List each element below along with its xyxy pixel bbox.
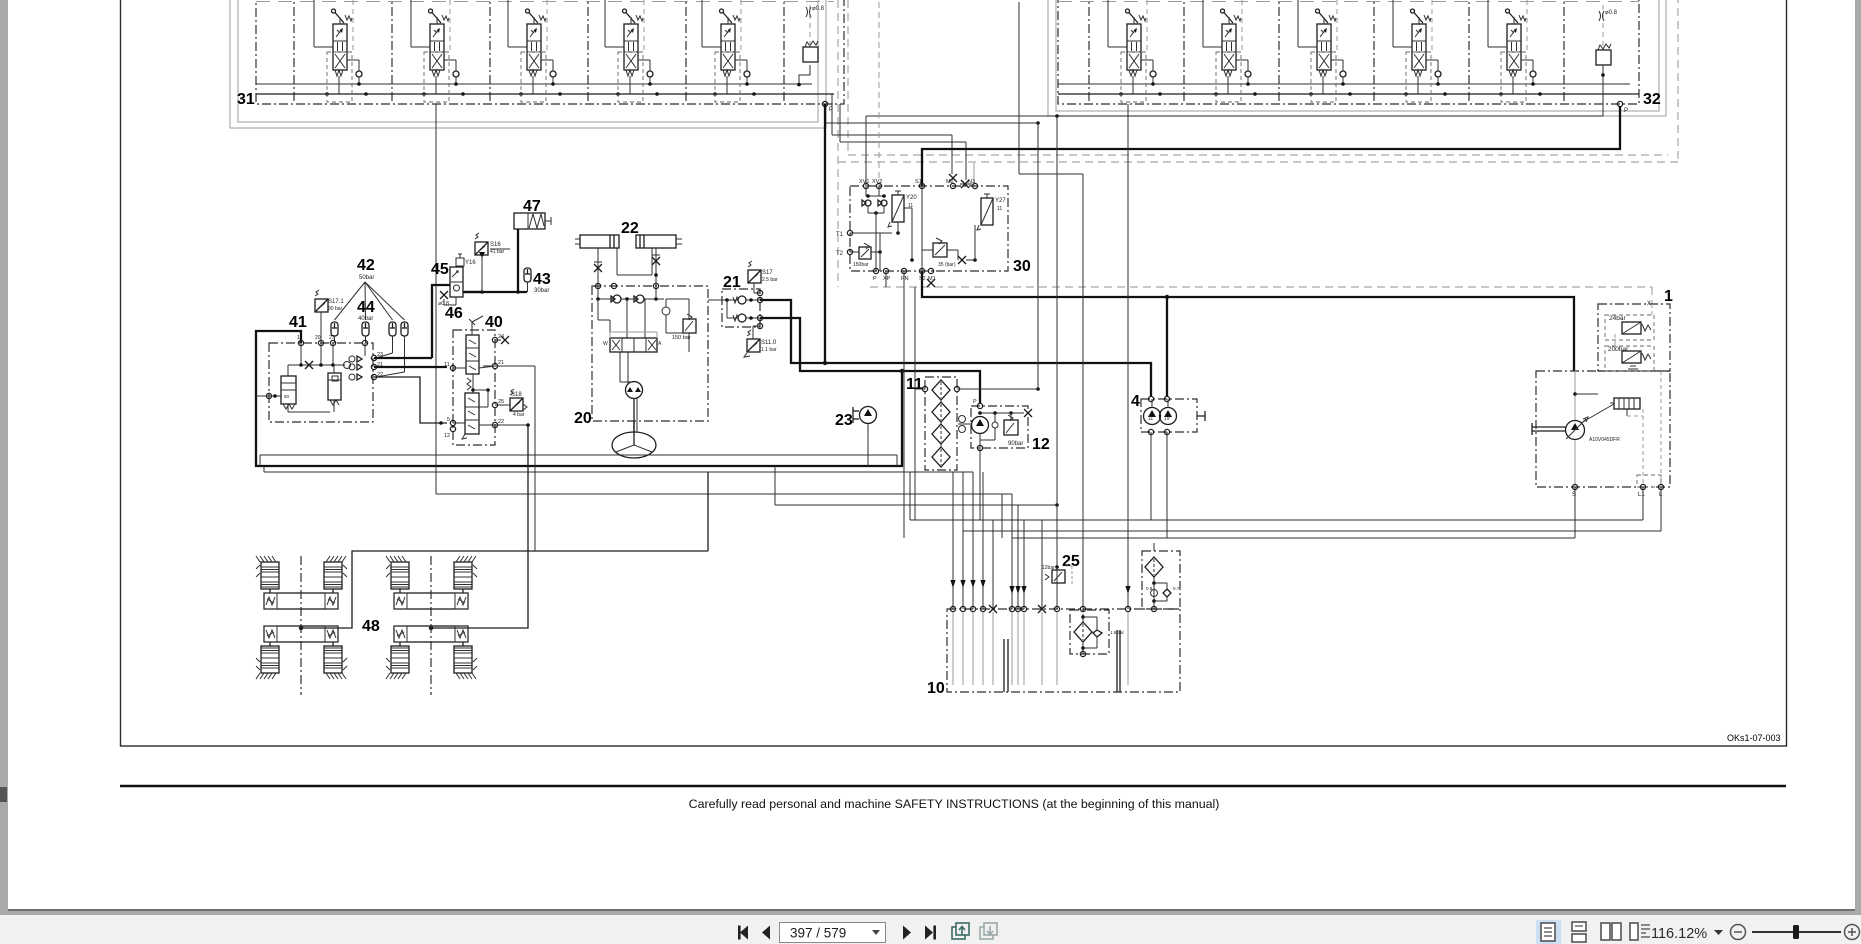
svg-text:116.12%: 116.12% — [1651, 926, 1707, 942]
svg-text:397 / 579: 397 / 579 — [790, 926, 846, 941]
